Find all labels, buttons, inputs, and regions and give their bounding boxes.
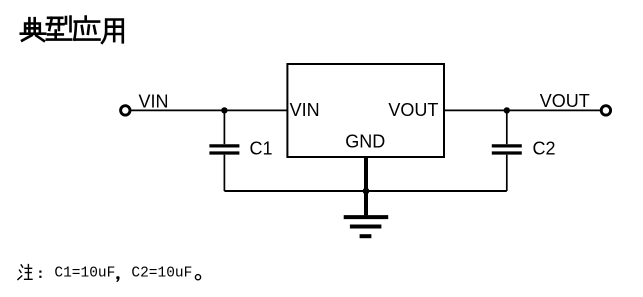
node A junction dot (C1 tap): [221, 107, 227, 113]
note glyph 注: [18, 265, 32, 280]
note fullwidth comma: [116, 276, 119, 279]
svg-text:VOUT: VOUT: [388, 100, 438, 120]
title glyph 应: [74, 17, 99, 40]
capacitor C2: [492, 146, 522, 153]
svg-text:C2=10uF: C2=10uF: [131, 265, 192, 281]
ground rail wire: [224, 190, 506, 192]
note fullwidth colon: [39, 271, 41, 273]
svg-text:C1=10uF: C1=10uF: [54, 265, 115, 281]
ground symbol: [344, 217, 389, 236]
note fullwidth period: [195, 275, 200, 280]
wire: C1 bottom plate to ground rail: [223, 155, 225, 191]
svg-text:C1: C1: [250, 139, 273, 159]
node B junction dot (C2 tap): [504, 107, 510, 113]
wire: input terminal to IC VIN pin: [131, 109, 288, 111]
wire: node B down to C2 top plate: [506, 110, 508, 144]
capacitor C1: [209, 146, 239, 153]
title glyph 用: [102, 20, 123, 43]
svg-text:C2: C2: [533, 139, 556, 159]
wire: node A down to C1 top plate: [223, 110, 225, 144]
wire: IC VOUT pin to output terminal: [444, 109, 600, 111]
svg-text:VIN: VIN: [139, 92, 169, 112]
output terminal: [601, 106, 610, 115]
title glyph 型: [47, 17, 71, 40]
IC U1 box: [287, 64, 444, 157]
wire: C2 bottom plate to ground rail: [506, 155, 508, 191]
input terminal: [121, 106, 130, 115]
ground rail junction dot: [363, 188, 370, 195]
GND pin wire (thick): [364, 157, 368, 215]
title glyph 典: [21, 18, 45, 41]
svg-text:VIN: VIN: [290, 100, 320, 120]
svg-text:VOUT: VOUT: [540, 91, 590, 111]
svg-text:GND: GND: [345, 132, 385, 152]
